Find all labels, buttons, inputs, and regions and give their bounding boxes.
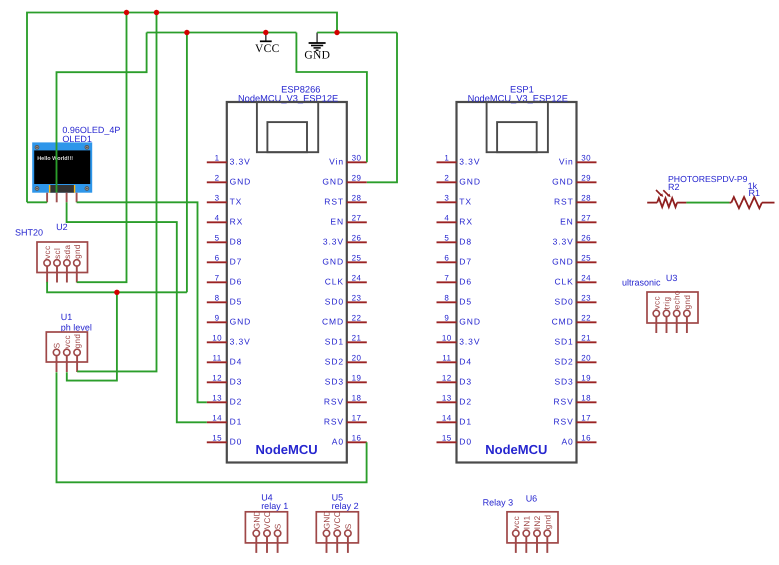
U8 pin 23 SD0 — [554, 293, 596, 306]
U7 pin 10 3.3V — [207, 333, 251, 346]
U7 shield can outline — [267, 122, 307, 152]
svg-text:RSV: RSV — [324, 396, 344, 406]
U4 pin 1 GND — [252, 510, 261, 553]
svg-text:4: 4 — [215, 213, 220, 222]
U1 pin 3 gnd — [73, 334, 82, 372]
U8 pin 13 D2 — [437, 393, 472, 406]
svg-text:GND: GND — [552, 256, 574, 266]
svg-text:SD3: SD3 — [325, 376, 344, 386]
wire U2 vcc to VCC branch — [47, 282, 187, 292]
svg-text:23: 23 — [352, 293, 362, 302]
svg-text:R2: R2 — [668, 182, 680, 192]
U7 pin 22 CMD — [322, 313, 367, 326]
svg-text:RSV: RSV — [324, 416, 344, 426]
svg-text:GND: GND — [230, 176, 252, 186]
svg-text:scl: scl — [53, 248, 62, 259]
U7 antenna module outline — [257, 102, 318, 152]
U7 pin 17 RSV — [324, 413, 367, 426]
U7 pin 15 D0 — [207, 433, 242, 446]
svg-text:3.3V: 3.3V — [459, 156, 480, 166]
svg-text:28: 28 — [581, 193, 591, 202]
svg-text:D3: D3 — [459, 376, 472, 386]
junction GND bus / U2 gnd branch — [124, 10, 129, 15]
svg-text:GND: GND — [323, 510, 332, 529]
svg-text:26: 26 — [352, 233, 362, 242]
svg-text:Relay 3: Relay 3 — [483, 498, 514, 508]
svg-text:8: 8 — [444, 293, 449, 302]
NodeMCU module U8 — [457, 102, 577, 463]
svg-text:PHOTORESPDV-P9: PHOTORESPDV-P9 — [668, 174, 748, 184]
svg-text:S: S — [344, 523, 353, 529]
junction GND bus corner — [334, 30, 339, 35]
svg-text:11: 11 — [212, 353, 221, 362]
ground symbol GND — [304, 33, 330, 62]
svg-text:4: 4 — [444, 213, 449, 222]
svg-text:OLED1: OLED1 — [62, 134, 92, 144]
svg-text:25: 25 — [581, 253, 591, 262]
wire VCC to OLED1 pin2 — [57, 33, 147, 193]
U3 pin 2 trig — [663, 297, 672, 333]
svg-text:D5: D5 — [230, 296, 243, 306]
svg-text:SD1: SD1 — [325, 336, 344, 346]
svg-text:SD3: SD3 — [554, 376, 573, 386]
svg-text:Vin: Vin — [559, 156, 574, 166]
svg-text:GND: GND — [322, 176, 344, 186]
svg-text:13: 13 — [442, 393, 452, 402]
svg-text:D4: D4 — [230, 356, 243, 366]
svg-text:D0: D0 — [230, 436, 243, 446]
U8 pin 26 3.3V — [553, 233, 597, 246]
svg-text:11: 11 — [442, 353, 451, 362]
U4 pin 3 S — [274, 523, 283, 553]
svg-text:CLK: CLK — [325, 276, 344, 286]
wire GND branch to U1 gnd — [77, 13, 156, 372]
U7 pin 24 CLK — [325, 273, 367, 286]
svg-text:D6: D6 — [230, 276, 243, 286]
OLED display OLED1 body — [32, 142, 92, 192]
svg-text:A0: A0 — [561, 436, 573, 446]
svg-text:1: 1 — [444, 153, 449, 162]
svg-text:CLK: CLK — [554, 276, 573, 286]
svg-text:RX: RX — [230, 216, 244, 226]
U8 pin 25 GND — [552, 253, 596, 266]
U7 pin 9 GND — [207, 313, 251, 326]
svg-text:2: 2 — [215, 173, 220, 182]
svg-text:ultrasonic: ultrasonic — [622, 278, 661, 288]
U8 shield can outline — [497, 122, 537, 152]
U7 pin 25 GND — [322, 253, 366, 266]
svg-text:29: 29 — [352, 173, 362, 182]
U8 pin 7 D6 — [437, 273, 472, 286]
U7 pin 4 RX — [207, 213, 243, 226]
U8 pin 29 GND — [552, 173, 596, 186]
power symbol VCC — [255, 33, 280, 55]
U2 pin 1 vcc — [43, 246, 52, 283]
svg-text:VCC: VCC — [255, 43, 280, 55]
svg-text:14: 14 — [442, 413, 452, 422]
U8 pin 3 TX — [437, 193, 472, 206]
svg-text:6: 6 — [215, 253, 220, 262]
svg-text:VCC: VCC — [333, 511, 342, 529]
svg-text:5: 5 — [444, 233, 449, 242]
U8 pin 4 RX — [437, 213, 473, 226]
svg-text:vcc: vcc — [43, 246, 52, 259]
wire GND top bus — [27, 13, 337, 203]
svg-text:echo: echo — [673, 290, 682, 309]
U7 pin 12 D3 — [207, 373, 242, 386]
OLED1 pin 1 — [46, 193, 48, 203]
svg-text:12: 12 — [442, 373, 452, 382]
svg-text:16: 16 — [581, 433, 591, 442]
svg-text:gnd: gnd — [683, 295, 692, 310]
wire OLED1 pin4 to U7 D2 pin13 — [77, 202, 207, 402]
svg-text:27: 27 — [352, 213, 362, 222]
svg-text:GND: GND — [459, 316, 481, 326]
connector U5 body — [316, 512, 358, 543]
U7 pin 3 TX — [207, 193, 242, 206]
svg-text:relay 1: relay 1 — [261, 501, 288, 511]
svg-text:IN1: IN1 — [522, 515, 531, 529]
svg-text:GND: GND — [459, 176, 481, 186]
U8 pin 15 D0 — [437, 433, 472, 446]
svg-text:15: 15 — [212, 433, 222, 442]
U6 pin 4 gnd — [543, 514, 552, 552]
U7 pin 16 A0 — [332, 433, 367, 446]
svg-text:U3: U3 — [666, 273, 678, 283]
resistor R1 — [729, 197, 774, 208]
svg-text:D2: D2 — [459, 396, 472, 406]
U8 pin 2 GND — [437, 173, 481, 186]
svg-text:9: 9 — [215, 313, 220, 322]
U2 pin 2 scl — [53, 248, 62, 283]
U8 pin 9 GND — [437, 313, 481, 326]
svg-text:GND: GND — [230, 316, 252, 326]
connector U1 body — [46, 332, 87, 362]
wire GND bus to U7 pin29 — [367, 33, 397, 183]
svg-text:vcc: vcc — [512, 516, 521, 529]
U5 pin 2 VCC — [333, 511, 342, 553]
svg-text:CMD: CMD — [552, 316, 574, 326]
svg-text:GND: GND — [552, 176, 574, 186]
svg-text:D1: D1 — [230, 416, 243, 426]
U7 pin 23 SD0 — [325, 293, 367, 306]
connector U3 body — [647, 292, 698, 323]
svg-text:9: 9 — [444, 313, 449, 322]
svg-text:19: 19 — [352, 373, 362, 382]
svg-text:18: 18 — [581, 393, 591, 402]
svg-text:30: 30 — [581, 153, 591, 162]
svg-text:29: 29 — [581, 173, 591, 182]
svg-text:3.3V: 3.3V — [323, 236, 344, 246]
svg-text:D8: D8 — [230, 236, 243, 246]
U7 pin 30 Vin — [329, 153, 367, 166]
svg-text:17: 17 — [581, 413, 591, 422]
svg-text:26: 26 — [581, 233, 591, 242]
svg-text:R1: R1 — [749, 188, 761, 198]
svg-text:RSV: RSV — [554, 416, 574, 426]
wire GND branch to U2 gnd — [77, 13, 127, 283]
U8 pin 8 D5 — [437, 293, 472, 306]
svg-text:13: 13 — [212, 393, 222, 402]
svg-text:Hello World!!!: Hello World!!! — [37, 156, 73, 162]
svg-text:27: 27 — [581, 213, 591, 222]
svg-text:7: 7 — [444, 273, 449, 282]
svg-text:24: 24 — [352, 273, 362, 282]
U1 pin 2 vcc — [63, 335, 72, 372]
U7 pin 7 D6 — [207, 273, 242, 286]
svg-text:SD2: SD2 — [554, 356, 573, 366]
U3 pin 4 gnd — [683, 295, 692, 333]
U7 pin 1 3.3V — [207, 153, 251, 166]
U2 pin 3 sda — [63, 245, 72, 283]
svg-text:GND: GND — [322, 256, 344, 266]
svg-text:30: 30 — [352, 153, 362, 162]
U7 pin 14 D1 — [207, 413, 242, 426]
svg-text:relay 2: relay 2 — [332, 501, 359, 511]
U2 pin 4 gnd — [73, 244, 82, 282]
svg-text:6: 6 — [444, 253, 449, 262]
svg-text:15: 15 — [442, 433, 452, 442]
svg-text:sda: sda — [63, 245, 72, 259]
svg-text:22: 22 — [581, 313, 591, 322]
svg-text:24: 24 — [581, 273, 591, 282]
svg-text:D0: D0 — [459, 436, 472, 446]
U8 pin 10 3.3V — [437, 333, 481, 346]
U5 pin 1 GND — [323, 510, 332, 553]
U8 pin 27 EN — [560, 213, 596, 226]
U7 pin 27 EN — [330, 213, 366, 226]
U8 pin 20 SD2 — [554, 353, 596, 366]
OLED1 pin 4 — [76, 193, 78, 203]
svg-text:D2: D2 — [230, 396, 243, 406]
OLED1 pin 3 — [66, 193, 68, 203]
U8 pin 30 Vin — [559, 153, 597, 166]
svg-text:3.3V: 3.3V — [553, 236, 574, 246]
photoresistor R2 — [647, 190, 686, 207]
U6 pin 1 vcc — [512, 516, 521, 553]
svg-text:S: S — [274, 523, 283, 529]
wire GND to OLED1 pin1 — [27, 201, 47, 203]
svg-text:3.3V: 3.3V — [230, 156, 251, 166]
connector U6 body — [507, 512, 558, 543]
svg-text:28: 28 — [352, 193, 362, 202]
junction GND bus / U1 gnd branch — [154, 10, 159, 15]
U7 pin 8 D5 — [207, 293, 242, 306]
svg-text:gnd: gnd — [73, 334, 82, 349]
svg-text:14: 14 — [212, 413, 222, 422]
junction VCC bus / VCC symbol — [263, 30, 268, 35]
svg-text:NodeMCU: NodeMCU — [485, 442, 547, 457]
wire VCC bus — [147, 32, 297, 34]
svg-text:D4: D4 — [459, 356, 472, 366]
U7 pin 21 SD1 — [325, 333, 367, 346]
U7 pin 28 RST — [324, 193, 367, 206]
svg-text:3.3V: 3.3V — [459, 336, 480, 346]
U7 pin 6 D7 — [207, 253, 242, 266]
U8 antenna module outline — [487, 102, 548, 152]
svg-text:gnd: gnd — [73, 244, 82, 259]
U7 pin 18 RSV — [324, 393, 367, 406]
svg-text:19: 19 — [581, 373, 591, 382]
svg-text:D8: D8 — [459, 236, 472, 246]
U8 pin 6 D7 — [437, 253, 472, 266]
U3 pin 3 echo — [673, 290, 682, 333]
svg-text:10: 10 — [212, 333, 222, 342]
U8 pin 16 A0 — [561, 433, 596, 446]
svg-text:D3: D3 — [230, 376, 243, 386]
svg-text:S: S — [53, 342, 62, 348]
wire R2 to R1 — [686, 202, 729, 204]
U7 pin 26 3.3V — [323, 233, 367, 246]
wire U1 vcc to VCC node — [67, 292, 117, 380]
svg-text:GND: GND — [252, 510, 261, 529]
U7 pin 19 SD3 — [325, 373, 367, 386]
svg-text:7: 7 — [215, 273, 220, 282]
svg-text:vcc: vcc — [652, 296, 661, 309]
U8 pin 21 SD1 — [554, 333, 596, 346]
svg-text:U6: U6 — [526, 493, 538, 503]
U8 pin 24 CLK — [554, 273, 596, 286]
svg-text:3: 3 — [444, 193, 449, 202]
connector U4 body — [245, 512, 287, 543]
wire VCC branch down — [186, 33, 188, 293]
U7 pin 5 D8 — [207, 233, 242, 246]
svg-text:CMD: CMD — [322, 316, 344, 326]
svg-text:ph level: ph level — [61, 322, 92, 332]
svg-text:23: 23 — [581, 293, 591, 302]
U8 pin 12 D3 — [437, 373, 472, 386]
U8 pin 28 RST — [554, 193, 597, 206]
svg-text:8: 8 — [215, 293, 220, 302]
U4 pin 2 VCC — [263, 511, 272, 553]
svg-text:A0: A0 — [332, 436, 344, 446]
svg-text:EN: EN — [330, 216, 344, 226]
svg-text:1: 1 — [215, 153, 220, 162]
svg-text:D6: D6 — [459, 276, 472, 286]
U7 pin 20 SD2 — [325, 353, 367, 366]
svg-text:D5: D5 — [459, 296, 472, 306]
svg-text:SD0: SD0 — [554, 296, 573, 306]
U5 pin 3 S — [344, 523, 353, 553]
svg-text:TX: TX — [459, 196, 472, 206]
U6 pin 3 IN2 — [533, 515, 542, 552]
svg-text:SD1: SD1 — [554, 336, 573, 346]
U8 pin 22 CMD — [552, 313, 597, 326]
svg-text:20: 20 — [352, 353, 362, 362]
svg-text:5: 5 — [215, 233, 220, 242]
svg-text:3: 3 — [215, 193, 220, 202]
U1 pin 1 S — [53, 342, 62, 372]
svg-text:TX: TX — [230, 196, 243, 206]
svg-text:3.3V: 3.3V — [230, 336, 251, 346]
svg-text:D1: D1 — [459, 416, 472, 426]
wire VCC to U7 Vin pin30 — [296, 33, 367, 163]
svg-text:D7: D7 — [230, 256, 243, 266]
U8 pin 1 3.3V — [437, 153, 481, 166]
U7 pin 13 D2 — [207, 393, 242, 406]
junction U2 vcc wire / U1 vcc branch — [114, 290, 119, 295]
svg-text:10: 10 — [442, 333, 452, 342]
U7 pin 29 GND — [322, 173, 366, 186]
svg-text:D7: D7 — [459, 256, 472, 266]
svg-text:SD0: SD0 — [325, 296, 344, 306]
U8 pin 5 D8 — [437, 233, 472, 246]
svg-text:SD2: SD2 — [325, 356, 344, 366]
svg-text:U1: U1 — [61, 312, 73, 322]
svg-text:EN: EN — [560, 216, 574, 226]
svg-text:21: 21 — [581, 333, 591, 342]
junction VCC bus / branch down — [184, 30, 189, 35]
svg-text:NodeMCU: NodeMCU — [256, 442, 318, 457]
U8 pin 18 RSV — [554, 393, 597, 406]
svg-text:18: 18 — [352, 393, 362, 402]
svg-text:IN2: IN2 — [533, 515, 542, 529]
svg-text:2: 2 — [444, 173, 449, 182]
U7 pin 11 D4 — [207, 353, 242, 366]
svg-text:21: 21 — [352, 333, 362, 342]
wire GND symbol bus — [317, 32, 397, 34]
U8 pin 19 SD3 — [554, 373, 596, 386]
svg-text:U2: U2 — [56, 222, 68, 232]
U8 pin 17 RSV — [554, 413, 597, 426]
svg-text:22: 22 — [352, 313, 362, 322]
U6 pin 2 IN1 — [522, 515, 531, 552]
wire OLED1 pin3 to U7 D1 pin14 — [67, 202, 207, 422]
connector U2 body — [37, 242, 88, 273]
svg-text:16: 16 — [352, 433, 362, 442]
svg-text:12: 12 — [212, 373, 222, 382]
svg-text:RSV: RSV — [554, 396, 574, 406]
svg-text:gnd: gnd — [543, 514, 552, 529]
svg-text:RX: RX — [459, 216, 473, 226]
svg-text:VCC: VCC — [263, 511, 272, 529]
U7 pin 2 GND — [207, 173, 251, 186]
svg-text:SHT20: SHT20 — [15, 228, 43, 238]
wire U1 S to U7 A0 pin16 — [57, 372, 367, 482]
OLED1 pin 2 — [56, 193, 58, 203]
svg-text:20: 20 — [581, 353, 591, 362]
svg-text:17: 17 — [352, 413, 362, 422]
svg-text:trig: trig — [663, 297, 672, 310]
svg-text:vcc: vcc — [63, 335, 72, 348]
svg-text:RST: RST — [324, 196, 344, 206]
NodeMCU module U7 — [227, 102, 347, 463]
svg-text:GND: GND — [304, 49, 330, 61]
U8 pin 14 D1 — [437, 413, 472, 426]
svg-text:RST: RST — [554, 196, 574, 206]
svg-text:Vin: Vin — [329, 156, 344, 166]
svg-text:25: 25 — [352, 253, 362, 262]
U8 pin 11 D4 — [437, 353, 472, 366]
U3 pin 1 vcc — [652, 296, 661, 333]
